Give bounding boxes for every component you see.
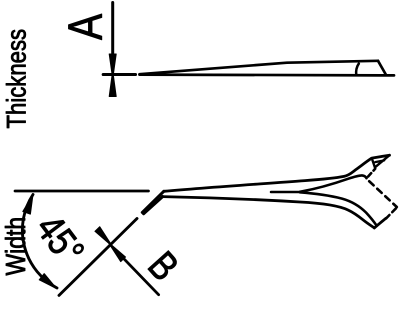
B dimension tail <box>124 259 158 294</box>
45 degree construction line <box>59 219 137 296</box>
upper arm end beak <box>376 155 390 167</box>
seam upper branch <box>300 175 367 191</box>
beak left stroke <box>372 158 376 168</box>
bent tip lower edge <box>144 197 163 214</box>
hidden dashed to apex <box>367 179 397 207</box>
svg-text:Thickness: Thickness <box>3 29 33 129</box>
B dimension bowtie arrow lower-right <box>108 242 126 262</box>
hidden dashed apex down <box>386 208 397 219</box>
arc arrowhead top <box>23 195 33 215</box>
seam lower branch <box>300 192 376 225</box>
svg-text:Width: Width <box>1 217 32 276</box>
side view transition arc <box>356 64 359 76</box>
beak middle bar <box>375 160 384 162</box>
B dimension bowtie arrow upper-left <box>95 227 113 247</box>
plan view bottom edge <box>163 197 375 228</box>
side view right cut <box>378 61 386 75</box>
dimension line A vertical <box>111 3 114 57</box>
width reference line <box>15 190 149 193</box>
arrowhead A down <box>109 54 116 79</box>
lower arm end cut <box>374 218 385 228</box>
side view bottom edge <box>140 73 395 77</box>
bent tip upper edge <box>142 191 164 212</box>
seam line <box>271 191 300 194</box>
hidden dashed junction to beak <box>367 169 375 178</box>
extension line at wedge tip <box>103 73 135 76</box>
angle arc <box>22 195 57 289</box>
arrowhead A up <box>109 71 116 97</box>
side view top edge <box>140 61 379 74</box>
arc arrowhead bottom <box>39 274 56 289</box>
plan view top edge <box>164 155 390 191</box>
svg-text:A: A <box>59 13 113 40</box>
